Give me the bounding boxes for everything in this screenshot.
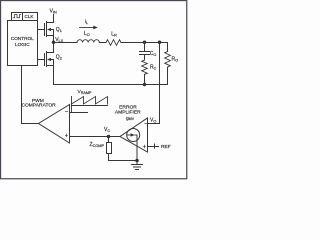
junction dot at ground node	[135, 159, 139, 163]
REF terminal tick	[154, 144, 156, 148]
ground symbol	[132, 165, 143, 170]
return rail	[54, 84, 168, 86]
transconductance source circle with arrow	[127, 129, 140, 142]
svg-text:+: +	[143, 144, 147, 150]
wire: VIN lead to Q1 drain	[53, 15, 55, 23]
wire: inductor to resistor LR	[99, 42, 106, 44]
capacitor CO	[140, 43, 150, 61]
resistor RO (load)	[165, 43, 171, 85]
op-amp PWM comparator	[39, 105, 70, 144]
current arrow iL	[80, 26, 98, 30]
border frame	[1, 1, 187, 179]
node: top rail junction for CO	[143, 41, 147, 45]
transistor Q2	[45, 52, 54, 67]
svg-text:AMPLIFIER: AMPLIFIER	[115, 110, 141, 116]
svg-text:−: −	[144, 121, 148, 127]
wire: control logic to Q1 gate	[38, 29, 45, 31]
resistor RC (ESR)	[142, 60, 148, 85]
impedance ZCOMP	[107, 137, 138, 161]
clock box	[12, 13, 38, 21]
svg-text:−: −	[65, 109, 69, 115]
svg-text:CLK: CLK	[25, 14, 35, 19]
svg-text:ERROR: ERROR	[119, 105, 137, 111]
wire: error amp plus input to REF	[148, 146, 159, 148]
inductor LO	[77, 40, 99, 43]
wire: VLX to inductor	[54, 42, 78, 44]
wire: VO feedback line down to error amp	[159, 43, 161, 124]
svg-text:gMV: gMV	[126, 116, 135, 121]
wire: control logic to Q2 gate	[38, 59, 45, 61]
wire: error amp bottom to ground	[136, 135, 138, 165]
transistor Q1	[45, 22, 54, 37]
op-amp error amplifier gMV	[120, 118, 148, 152]
svg-text:+: +	[65, 133, 69, 139]
node VLX junction dot	[52, 41, 56, 45]
control logic box U1	[8, 21, 38, 66]
wire: control logic down to PWM comparator output	[21, 66, 23, 124]
wire: node VLX to Q2 drain	[53, 43, 55, 53]
resistor LR (inductor series resistance)	[106, 40, 121, 46]
wire: error amp minus input to feedback line	[148, 123, 160, 125]
wire: PWM comparator minus input	[70, 112, 88, 114]
node: top rail junction for VO feedback	[158, 41, 162, 45]
svg-text:COMPARATOR: COMPARATOR	[21, 103, 56, 109]
ramp generator VRAMP sawtooth	[72, 97, 108, 113]
svg-text:CONTROL: CONTROL	[11, 36, 34, 41]
node VC junction dot	[107, 135, 111, 139]
wire: PWM comparator plus input to node VC	[70, 136, 121, 138]
wire: resistor LR to output node rail	[121, 42, 168, 44]
clock box separator	[22, 13, 24, 21]
svg-text:LOGIC: LOGIC	[15, 42, 30, 47]
clock square-wave glyph	[13, 15, 21, 18]
wire: Q2 source down to return rail	[53, 66, 55, 85]
return rail junction dot under RC	[143, 83, 147, 87]
svg-text:REF: REF	[161, 144, 171, 150]
wire: Q1 source to node VLX	[53, 36, 55, 43]
